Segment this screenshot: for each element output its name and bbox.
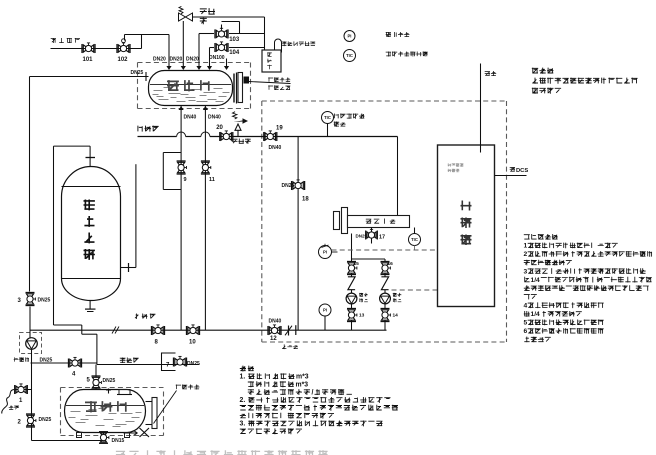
svg-text:TIC: TIC [324,115,331,120]
svg-text:DN25: DN25 [356,234,368,239]
svg-text:/: / [312,389,314,396]
svg-text:4: 4 [524,302,528,309]
svg-text:16: 16 [388,261,394,267]
svg-text:1: 1 [524,243,528,250]
svg-text:18: 18 [302,197,309,203]
svg-text:12: 12 [270,336,277,342]
svg-text:5: 5 [524,320,528,327]
svg-text:10: 10 [189,340,196,346]
svg-text:20: 20 [216,125,223,131]
svg-text:DN40: DN40 [208,115,221,121]
svg-text:DN100: DN100 [209,55,225,61]
svg-text:11: 11 [209,177,215,183]
svg-text:DN25: DN25 [103,378,116,384]
svg-text:DN25: DN25 [282,183,295,189]
svg-text:14: 14 [393,313,399,319]
svg-text:103: 103 [229,37,240,43]
svg-text:9: 9 [184,177,187,183]
svg-text:101: 101 [83,57,94,63]
svg-text:19: 19 [276,126,283,132]
svg-text:104: 104 [229,50,240,56]
svg-text:6: 6 [524,328,528,335]
svg-text:DN25: DN25 [187,361,200,367]
svg-text:15: 15 [354,261,360,267]
svg-text:DN25: DN25 [39,417,52,423]
svg-text:PI: PI [323,250,327,255]
svg-text:3.: 3. [240,421,246,428]
svg-text:17: 17 [379,235,385,241]
svg-text:DN40: DN40 [184,115,197,121]
svg-text:DN15: DN15 [112,438,125,444]
svg-text:DN25: DN25 [38,298,51,304]
svg-text:DN40: DN40 [269,145,282,151]
svg-text:DN25: DN25 [131,70,144,76]
svg-text:m*3: m*3 [296,374,309,381]
svg-text:PI: PI [323,308,327,313]
svg-text:DN20: DN20 [186,57,199,63]
svg-text:102: 102 [118,57,129,63]
svg-text:TIC: TIC [411,237,418,242]
svg-text:2: 2 [524,251,528,258]
svg-text:3: 3 [524,268,528,275]
svg-text:1.: 1. [240,374,246,381]
svg-text:m*3: m*3 [296,381,309,388]
svg-text:DN40: DN40 [269,319,282,325]
svg-text:PI: PI [348,34,352,39]
svg-text:1/4: 1/4 [531,277,541,284]
svg-text:2.: 2. [240,397,246,404]
svg-text:1/4: 1/4 [531,311,541,318]
svg-text:DCS: DCS [516,168,528,174]
svg-text:DN20: DN20 [153,57,166,63]
svg-text:TIC: TIC [346,53,353,58]
svg-text:13: 13 [359,313,365,319]
svg-text:DN20: DN20 [170,57,183,63]
